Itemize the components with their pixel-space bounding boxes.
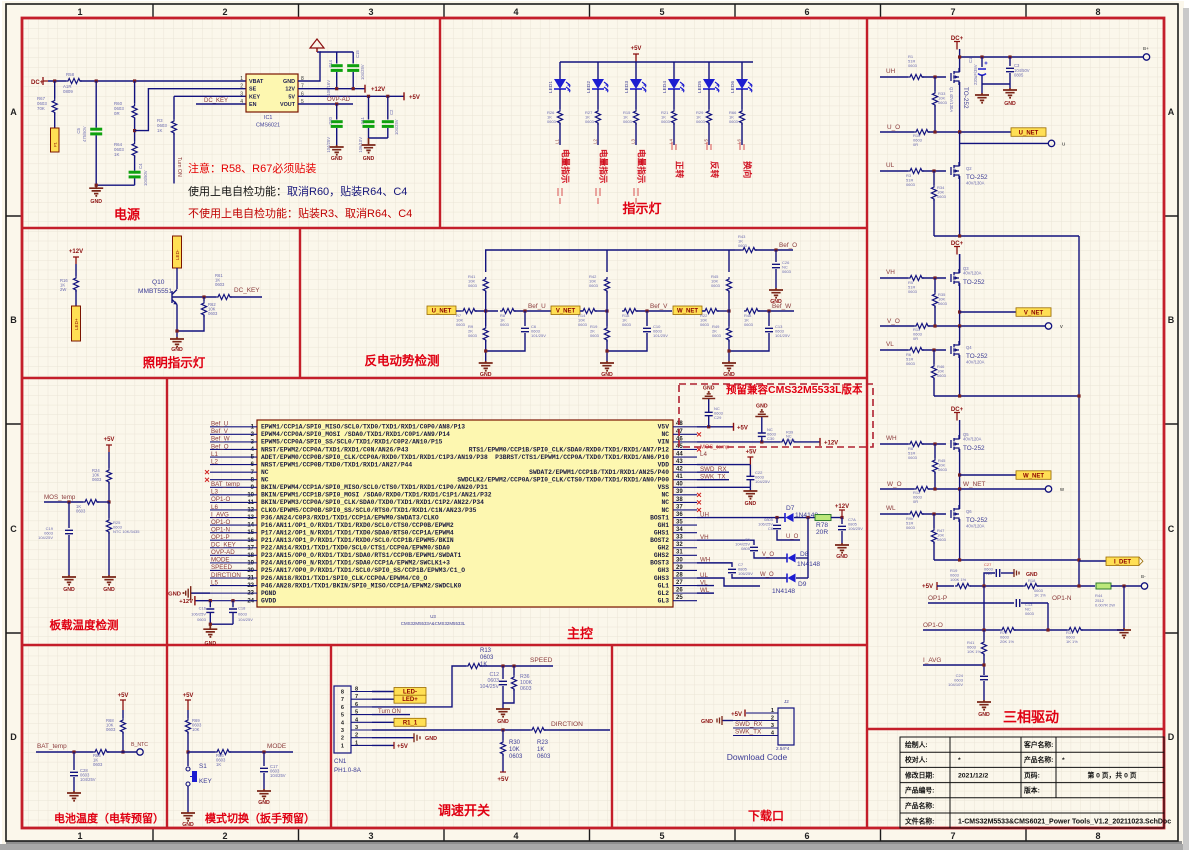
resistor R15 1K (633, 109, 638, 125)
svg-text:GND: GND (168, 591, 181, 597)
svg-text:SWK_TX: SWK_TX (735, 729, 762, 736)
svg-text:104/25V: 104/25V (326, 137, 331, 153)
svg-text:0603: 0603 (711, 283, 721, 288)
LED LED3 (635, 62, 637, 79)
svg-text:Q4: Q4 (966, 345, 972, 350)
svg-text:C4: C4 (138, 163, 143, 169)
junction gate divider VH (933, 276, 936, 279)
resistor R58 (66, 78, 82, 83)
resistor R48 1K (744, 308, 760, 313)
svg-text:Bef_V: Bef_V (211, 428, 229, 435)
wire +12V to R16 (75, 264, 77, 276)
wire C19 (68, 502, 70, 528)
transistor Q2 low side (951, 162, 959, 179)
wire R33 to O node (934, 105, 936, 132)
svg-text:P16/AN11/OP1_O/RXD1/TXD1/RXD0/: P16/AN11/OP1_O/RXD1/TXD1/RXD0/SCL0/CTS0/… (261, 522, 454, 529)
resistor R5 51R (908, 275, 924, 280)
wire +5V pin48 (697, 426, 734, 428)
svg-text:VIN: VIN (658, 439, 670, 446)
junction C12 tap (501, 664, 504, 667)
svg-text:0603: 0603 (712, 333, 722, 338)
svg-text:7: 7 (950, 7, 955, 17)
wire C19 gnd (68, 535, 70, 575)
capacitor C7b 106/25V (728, 569, 736, 572)
connector LED- (yellow) (173, 236, 182, 268)
gnd flag J2 (722, 720, 733, 722)
svg-text:V_NET: V_NET (1024, 310, 1044, 316)
svg-text:校对人:: 校对人: (905, 755, 928, 764)
svg-text:电量指示: 电量指示 (561, 149, 572, 184)
svg-text:GH2: GH2 (658, 545, 670, 552)
svg-text:W_NET: W_NET (1023, 473, 1044, 479)
svg-text:3: 3 (771, 723, 774, 729)
wire LED5 to resistor (708, 89, 710, 109)
svg-text:D9: D9 (798, 581, 807, 588)
terminal u (1048, 140, 1054, 146)
svg-text:A: A (10, 107, 17, 117)
svg-text:0603: 0603 (215, 282, 225, 287)
svg-text:1: 1 (77, 7, 82, 17)
svg-text:70K: 70K (37, 106, 45, 111)
diode D7 1N4148 (786, 513, 794, 522)
ground C22 (743, 490, 757, 496)
wire DC+ V drain (959, 254, 961, 273)
resistor R14 10K (581, 308, 597, 313)
main vertical diode bus (807, 518, 809, 578)
svg-text:BKIN/EPWM3/CCP0A/SPI0_CLK/SDA0: BKIN/EPWM3/CCP0A/SPI0_CLK/SDA0/TXD0/TXD1… (261, 499, 484, 506)
resistor R43 1K top right (735, 249, 741, 251)
svg-text:0603: 0603 (937, 194, 947, 199)
diode D9 1N4148 (788, 574, 796, 583)
svg-text:OP1-N: OP1-N (211, 526, 230, 533)
svg-text:W_O: W_O (887, 481, 902, 488)
svg-text:VOUT: VOUT (280, 102, 296, 108)
wire LED1 to resistor (559, 89, 561, 109)
MCU right net labels (700, 451, 726, 594)
MCU U3 body (257, 420, 673, 607)
wire R61 to DC_KEY (230, 296, 262, 298)
LED LED1 (559, 62, 561, 79)
svg-text:CN1: CN1 (334, 758, 347, 765)
svg-text:0603: 0603 (547, 119, 557, 124)
wire R34 to rail (933, 199, 935, 236)
MCU right pin numbers (676, 421, 683, 601)
resistor R33 10K gate UH (934, 77, 936, 91)
ground S1 (181, 812, 195, 818)
svg-text:R1_1: R1_1 (403, 720, 418, 726)
MCU left net labels (211, 421, 241, 587)
transistor Q1 high side (951, 68, 959, 85)
wire R68 to node (122, 732, 124, 752)
svg-text:101/25V: 101/25V (653, 333, 668, 338)
wire R43 to Bef_O (755, 249, 793, 251)
svg-text:三相驱动: 三相驱动 (1003, 709, 1059, 725)
wire pin46 to R39 (697, 441, 780, 443)
ground Q10 (170, 337, 184, 344)
power GND flag MCU (sideways earth) (186, 586, 191, 600)
svg-text:+5V: +5V (409, 95, 420, 101)
wire to Bef_V (636, 310, 672, 312)
svg-text:L2: L2 (593, 139, 598, 144)
svg-text:P22/AN14/RXD1/TXD1/TXD0/SCL0/C: P22/AN14/RXD1/TXD1/TXD0/SCL0/CTS1/CCP0A/… (261, 545, 450, 552)
svg-text:反电动势检测: 反电动势检测 (364, 353, 439, 368)
svg-text:BKIN/EPWM1/CCP1B/SPI0_MOSI /SD: BKIN/EPWM1/CCP1B/SPI0_MOSI /SDA0/RXD0/TX… (261, 492, 492, 499)
svg-text:SWDCLK2/EPWM2/CCP0A/SPI0_CLK/C: SWDCLK2/EPWM2/CCP0A/SPI0_CLK/CTS0/TXD0/T… (457, 477, 669, 484)
svg-text:6: 6 (341, 705, 344, 711)
resistor R68 10K (120, 718, 125, 734)
svg-text:0603: 0603 (456, 322, 466, 327)
svg-text:L6: L6 (737, 139, 742, 144)
svg-text:u: u (1062, 141, 1065, 147)
svg-text:UH: UH (886, 68, 896, 75)
resistor R22 10K (703, 308, 719, 313)
resistor R19b 2K (down) (606, 311, 608, 326)
ground MCU caps (203, 624, 217, 634)
junction C5 branch (95, 79, 98, 82)
svg-text:VSS: VSS (658, 484, 670, 491)
wire LED2 net stub (597, 123, 599, 145)
capacitor C1 220uF/35V electrolytic (981, 57, 983, 67)
ground W divider (722, 361, 736, 368)
svg-text:0603: 0603 (729, 119, 739, 124)
svg-text:40V/120A: 40V/120A (963, 271, 982, 276)
svg-text:220uF/35V: 220uF/35V (973, 64, 978, 85)
svg-text:TO-252: TO-252 (963, 445, 985, 452)
svg-text:3: 3 (240, 91, 243, 97)
svg-text:1: 1 (240, 76, 243, 82)
svg-text:V5V: V5V (658, 424, 670, 431)
junction gate divider WL (932, 512, 935, 515)
svg-text:+5V: +5V (631, 46, 642, 52)
power +12V MCU (194, 596, 196, 605)
wire R64-C4 (134, 156, 136, 171)
svg-text:产品名称:: 产品名称: (905, 801, 934, 810)
wire S1 gnd (187, 786, 189, 812)
svg-text:0603: 0603 (509, 754, 523, 760)
wire C17 (263, 752, 265, 766)
svg-text:DIRCTION: DIRCTION (211, 572, 241, 579)
svg-text:NC: NC (661, 492, 669, 499)
wire EN pin (196, 103, 246, 105)
svg-text:DC_KEY: DC_KEY (234, 287, 260, 294)
wire C30 to gnd (761, 417, 763, 434)
svg-text:0603: 0603 (937, 537, 947, 542)
svg-text:0603: 0603 (937, 373, 947, 378)
V NET tap wire (958, 310, 961, 313)
svg-text:104/25V: 104/25V (270, 773, 286, 778)
wire R41b to I_AVG node (983, 654, 985, 675)
svg-text:2W: 2W (60, 287, 66, 292)
wire C6 bottom (486, 333, 525, 351)
wire C27 left (984, 573, 995, 586)
svg-text:I_AVG: I_AVG (211, 511, 229, 518)
resistor R37 1K 1% (1067, 627, 1083, 632)
svg-text:MODE: MODE (267, 743, 286, 750)
transistor Q6 low side (951, 505, 959, 522)
junction opamp node (982, 584, 985, 587)
svg-text:3: 3 (355, 725, 358, 731)
wire C26 gnd (775, 269, 777, 288)
svg-text:106/25V: 106/25V (738, 571, 753, 576)
resistor R41b 10K 1% (983, 630, 985, 640)
svg-text:DC+: DC+ (31, 80, 44, 86)
CN1 pin numbers (341, 687, 359, 750)
svg-text:CLKO/EPWM5/CCP0B/SPI0_SS/SCL0/: CLKO/EPWM5/CCP0B/SPI0_SS/SCL0/RTS0/TXD1/… (261, 507, 477, 514)
capacitor C30 NC (761, 436, 763, 442)
ruler column ticks (153, 4, 1026, 841)
capacitor C24 (980, 676, 988, 679)
resistor R29 1K (706, 109, 711, 125)
resistor R9b 51R (908, 511, 924, 516)
svg-text:BAT_temp: BAT_temp (37, 743, 67, 750)
wire R46 to rail (933, 378, 935, 396)
svg-text:L5: L5 (211, 579, 218, 586)
svg-text:GVDD: GVDD (261, 597, 276, 604)
junction O gate node W (933, 487, 936, 490)
wire +5V to R19 (937, 585, 954, 587)
svg-text:1N4148: 1N4148 (772, 588, 795, 595)
wire node to R66 (188, 751, 215, 753)
resistor R24 10K (106, 468, 111, 484)
wire C13 to OP1-N node (1021, 602, 1048, 604)
svg-text:W_NET: W_NET (963, 481, 985, 488)
wire R45 to O node (934, 472, 936, 489)
wire B- gnd (1123, 586, 1125, 628)
svg-text:LED-: LED- (403, 690, 417, 696)
wire UH to D7 (697, 517, 785, 519)
wire +5V node down (983, 586, 985, 630)
svg-text:17: 17 (247, 545, 254, 551)
J2 pin stubs (722, 713, 778, 736)
svg-text:页码:: 页码: (1024, 771, 1040, 779)
junction C29 (707, 425, 710, 428)
wire UL gate (880, 170, 908, 172)
svg-text:文件名称:: 文件名称: (904, 816, 934, 825)
svg-text:GHS3: GHS3 (654, 575, 669, 582)
wire R22 to W node (717, 310, 729, 312)
resistor R47 10K gate WL (933, 514, 935, 528)
svg-text:1-CMS32M5533&CMS6021_Power Too: 1-CMS32M5533&CMS6021_Power Tools_V1.2_20… (958, 818, 1171, 825)
svg-text:板载温度检测: 板载温度检测 (50, 618, 119, 632)
wire I_DET (1079, 560, 1106, 562)
svg-text:GND: GND (723, 372, 735, 378)
capacitor C29 NC (708, 416, 710, 427)
gnd flag sideways C27 (1014, 569, 1019, 577)
svg-text:0603: 0603 (537, 754, 551, 760)
wire C22 to pin40 (749, 480, 751, 488)
resistor R21 1K (671, 109, 676, 125)
svg-text:P25/AN17/OP0_P/RXD1/TXD1/SCL0/: P25/AN17/OP0_P/RXD1/TXD1/SCL0/SPI0_SS/CC… (261, 567, 465, 574)
svg-text:2: 2 (341, 736, 344, 742)
svg-text:LED5: LED5 (697, 81, 703, 93)
wire terminal tap U (960, 142, 1048, 144)
svg-text:0603: 0603 (786, 438, 795, 443)
wire C17 gnd (263, 773, 265, 789)
wire pin6 to R13 (372, 666, 466, 707)
wire VL gate (880, 349, 908, 351)
wire C8 to U_O (777, 530, 800, 540)
svg-text:GND: GND (331, 156, 343, 162)
wire MCU gnd pin23 (191, 592, 210, 594)
svg-text:0603: 0603 (908, 455, 918, 460)
connector LED+ (yellow) (72, 306, 81, 341)
wire pin4 R1_1 (372, 721, 394, 723)
wire D7 to R78 (794, 517, 815, 519)
svg-text:24: 24 (247, 598, 254, 604)
svg-text:LED1: LED1 (548, 81, 554, 93)
MCU left pin numbers (247, 424, 254, 604)
svg-text:C5: C5 (76, 127, 81, 133)
terminal w (1045, 486, 1051, 492)
junction C8 tap (775, 516, 778, 519)
page shadow right (1183, 8, 1189, 850)
wire R24 to node (108, 482, 110, 502)
svg-text:2021/12/2: 2021/12/2 (958, 772, 988, 779)
capacitor C12 104/25V (502, 666, 504, 679)
svg-text:GND: GND (701, 719, 713, 725)
svg-text:OP1-O: OP1-O (923, 622, 943, 629)
svg-text:C18: C18 (238, 606, 246, 611)
wire R14 to V node (595, 310, 607, 312)
bemf top bus (485, 249, 735, 251)
junction V node (605, 309, 608, 312)
resistor R11 0R (914, 323, 930, 328)
svg-text:GL3: GL3 (658, 597, 670, 604)
svg-text:KEY: KEY (199, 778, 213, 785)
wire LED6 to resistor (741, 89, 743, 109)
wire LED4 to resistor (673, 89, 675, 109)
svg-text:OP1-P: OP1-P (928, 595, 947, 602)
wire C11C2 gnd link (368, 128, 370, 138)
svg-text:101/25V: 101/25V (531, 333, 546, 338)
svg-text:5: 5 (659, 7, 664, 17)
svg-text:8: 8 (1095, 7, 1100, 17)
svg-text:0603: 0603 (782, 269, 792, 274)
svg-text:2: 2 (771, 716, 774, 722)
net label R1_1 (yellow) (394, 718, 426, 726)
svg-text:0603: 0603 (700, 322, 710, 327)
svg-text:L4: L4 (700, 451, 707, 458)
svg-text:0603: 0603 (468, 333, 478, 338)
J2 pin numbers (771, 708, 775, 737)
wire C27 to gnd flag (1001, 572, 1014, 574)
svg-text:GND: GND (63, 587, 75, 593)
svg-text:MODE: MODE (211, 557, 230, 564)
svg-text:0603: 0603 (106, 727, 116, 732)
resistor R70 20K 1% (1000, 627, 1016, 632)
junction mode node (186, 750, 189, 753)
terminal B+ (1143, 54, 1149, 60)
wire LED1 net stub (559, 123, 561, 145)
svg-text:104/50V: 104/50V (143, 170, 148, 186)
svg-text:B: B (10, 315, 17, 325)
svg-text:104/25V: 104/25V (38, 535, 53, 540)
svg-text:5: 5 (659, 831, 664, 841)
wire LED3 net stub (635, 123, 637, 145)
phase rail V (934, 395, 1079, 397)
svg-text:NC: NC (261, 469, 269, 476)
resistor R8 51R (908, 441, 924, 446)
svg-text:V_O: V_O (762, 552, 774, 558)
ground B- (1117, 628, 1131, 635)
junction Bef_V (645, 309, 648, 312)
capacitor C2 104/25V (387, 96, 389, 119)
svg-text:Turn ON: Turn ON (176, 157, 182, 177)
svg-text:KEY: KEY (249, 94, 260, 100)
junction gate divider UH (933, 75, 936, 78)
svg-text:V_NET: V_NET (556, 309, 576, 315)
svg-text:Bef_U: Bef_U (211, 421, 228, 428)
svg-text:3: 3 (368, 7, 373, 17)
ground C26 (769, 288, 783, 295)
resistor R27 1K (595, 109, 600, 125)
ground C30 (inverted) (761, 409, 763, 411)
svg-text:0603: 0603 (590, 333, 600, 338)
capacitor C4 104/50V (129, 171, 141, 174)
svg-text:15: 15 (247, 530, 254, 536)
svg-text:SWDAT2/EPWM1/CCP1B/TXD1/RXD1/A: SWDAT2/EPWM1/CCP1B/TXD1/RXD1/AN25/P40 (529, 469, 669, 476)
svg-text:模式切换（扳手预留）: 模式切换（扳手预留） (205, 811, 315, 825)
wire R37 to gnd arm (1081, 629, 1124, 631)
wire C28 gnd (73, 777, 75, 791)
capacitor C10b 101/25V (646, 311, 648, 326)
svg-text:10: 10 (247, 492, 254, 498)
svg-text:P46/AN28/RXD1/TXD1/BKIN/SPI0_M: P46/AN28/RXD1/TXD1/BKIN/SPI0_MISO/CCP1A/… (261, 582, 461, 589)
junction U node (484, 309, 487, 312)
svg-text:P26/AN18/RXD1/TXD1/SPI0_CLK/CC: P26/AN18/RXD1/TXD1/SPI0_CLK/CCP0A/EPWM4/… (261, 575, 427, 582)
svg-text:R13: R13 (480, 648, 492, 654)
svg-text:0603: 0603 (585, 119, 595, 124)
svg-text:+5V: +5V (922, 583, 934, 590)
junction C19 tap (67, 500, 70, 503)
gnd flag sideways CN1 (414, 733, 420, 742)
svg-text:GND: GND (756, 404, 768, 410)
svg-text:电源: 电源 (114, 207, 140, 222)
svg-text:5V: 5V (288, 94, 295, 100)
svg-text:GND: GND (978, 712, 990, 718)
wire Q10 emitter down (176, 305, 178, 338)
svg-text:20: 20 (247, 568, 254, 574)
svg-text:0603: 0603 (622, 322, 632, 327)
svg-text:绘制人:: 绘制人: (905, 740, 928, 749)
junction gate divider WH (933, 442, 936, 445)
resistor R65 1K (93, 749, 109, 754)
transistor Q4 low side (951, 341, 959, 358)
svg-text:7: 7 (355, 694, 358, 700)
svg-text:R23: R23 (537, 740, 549, 746)
svg-text:Q2: Q2 (966, 166, 972, 171)
svg-text:BOST3: BOST3 (650, 560, 669, 567)
svg-text:OP1-O: OP1-O (211, 519, 230, 526)
svg-text:LED6: LED6 (730, 81, 736, 93)
svg-text:C15: C15 (355, 50, 360, 58)
capacitor C19 104/25V (65, 530, 73, 533)
junction O gate node V (933, 324, 936, 327)
svg-text:客户名称:: 客户名称: (1023, 740, 1053, 749)
wire pin40 gnd drop (749, 487, 751, 490)
svg-text:0805: 0805 (741, 546, 751, 551)
resistor R36 100K (513, 666, 515, 675)
svg-text:0603: 0603 (92, 477, 102, 482)
wire Q6 source to rail (959, 519, 961, 560)
svg-text:OP1-N: OP1-N (1052, 595, 1072, 602)
LED LED4 (673, 62, 675, 79)
ground C1 (975, 93, 989, 100)
wire C4 to gnd rail (134, 178, 136, 185)
wire R44 to B- (1111, 585, 1141, 587)
wire DC+ drain W (959, 420, 961, 439)
svg-text:Q10: Q10 (152, 279, 165, 286)
